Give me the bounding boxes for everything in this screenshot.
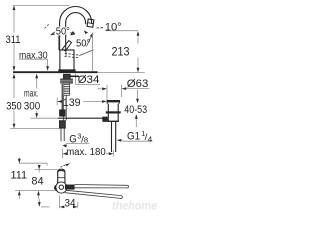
svg-text:G: G (69, 134, 76, 146)
svg-text:max. 180: max. 180 (66, 146, 106, 158)
svg-text:50°: 50° (56, 26, 70, 37)
svg-text:84: 84 (31, 176, 43, 188)
svg-text:311: 311 (6, 34, 21, 46)
svg-text:350: 350 (6, 100, 22, 112)
svg-text:50°: 50° (76, 38, 90, 49)
svg-text:300: 300 (24, 100, 40, 112)
svg-text:thehome: thehome (112, 201, 158, 213)
svg-text:34: 34 (65, 197, 76, 209)
svg-text:139: 139 (63, 97, 81, 109)
svg-text:Ø34: Ø34 (78, 74, 100, 86)
svg-text:G1: G1 (127, 131, 140, 143)
svg-text:10°: 10° (105, 22, 122, 34)
svg-text:4: 4 (148, 134, 153, 143)
svg-text:8: 8 (84, 136, 88, 145)
svg-text:max.30: max.30 (19, 50, 48, 62)
svg-text:max.: max. (24, 88, 39, 100)
svg-text:Ø63: Ø63 (127, 78, 149, 90)
svg-text:213: 213 (112, 44, 130, 58)
svg-text:111: 111 (11, 170, 28, 182)
svg-text:40-53: 40-53 (124, 104, 147, 116)
